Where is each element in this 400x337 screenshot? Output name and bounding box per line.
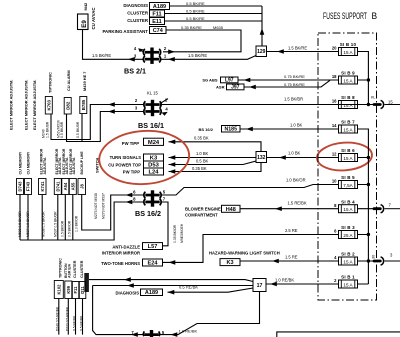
terminal KL 30	[374, 260, 380, 263]
wire staircase CU memory and mirror units to BS 16/2 pin 8	[20, 195, 73, 241]
svg-text:A189: A189	[145, 290, 158, 296]
svg-text:J97: J97	[231, 85, 240, 91]
red highlight ellipse left	[97, 128, 190, 187]
svg-text:0.5 BK/OR: 0.5 BK/OR	[67, 220, 71, 237]
connector stub block left	[84, 273, 89, 292]
connector D53 CU power top	[144, 161, 164, 168]
wire BS 16/2 pin 5 to fuse SI B5, 1.0 BK/OR	[161, 185, 339, 196]
wire fuse SI B7 to N185, 1.0 BK	[240, 128, 339, 130]
svg-text:0.5 RE/BK: 0.5 RE/BK	[179, 285, 198, 290]
svg-text:K99: K99	[66, 285, 71, 293]
svg-text:SI B 6: SI B 6	[341, 148, 355, 153]
pin 4 stub arrow	[162, 112, 168, 116]
svg-text:15 A: 15 A	[343, 128, 353, 133]
svg-text:M439 HE 7: M439 HE 7	[82, 72, 87, 91]
svg-text:6: 6	[133, 190, 136, 195]
svg-text:8: 8	[334, 203, 337, 208]
wire fuse SI B6 to node 132, 1.0 BK	[266, 157, 339, 159]
svg-text:15: 15	[388, 99, 393, 104]
connector H48 blower engine compartment	[222, 205, 241, 212]
svg-text:1.5 BK/BR: 1.5 BK/BR	[45, 121, 49, 138]
connector A55 mirror adjust	[69, 179, 76, 195]
svg-text:12: 12	[332, 152, 337, 157]
svg-text:30: 30	[372, 255, 376, 259]
svg-text:15 A: 15 A	[343, 207, 353, 212]
svg-text:DIAGNOSIS: DIAGNOSIS	[116, 291, 140, 296]
svg-text:0.35 BK/OR: 0.35 BK/OR	[173, 224, 177, 243]
wire fuse bus KL15 side	[358, 52, 378, 105]
wire node 132 to M24, 0.35 BK	[169, 142, 262, 152]
connector D82 CU alarm	[64, 98, 71, 115]
svg-text:ELECT MIRROR ADJUSTM.: ELECT MIRROR ADJUSTM.	[24, 80, 29, 130]
svg-text:E24: E24	[148, 261, 159, 267]
svg-text:BS 16/1: BS 16/1	[138, 121, 164, 130]
svg-text:0.75 BK/RE: 0.75 BK/RE	[284, 74, 305, 79]
svg-text:M273 NOT M538: M273 NOT M538	[94, 193, 98, 219]
svg-text:CU ALARM: CU ALARM	[66, 70, 71, 91]
svg-text:4: 4	[165, 107, 168, 112]
connector D743 CU memory	[17, 179, 24, 195]
svg-text:7: 7	[163, 197, 166, 202]
svg-text:ANTI-DAZZLE: ANTI-DAZZLE	[112, 244, 140, 249]
connector D11 cluster	[79, 282, 86, 299]
svg-text:ELECT MIRROR ADJUSTM.: ELECT MIRROR ADJUSTM.	[9, 80, 14, 130]
svg-text:0.5 BK/OR: 0.5 BK/OR	[60, 220, 64, 237]
wire lower bus to node 17	[93, 285, 253, 287]
connector bottom BS half symbol	[143, 330, 159, 337]
svg-text:M635: M635	[213, 25, 224, 30]
wire A189 0.5 BK/RE	[170, 5, 263, 7]
wire C74 0.35 BK/RE loop to BS 2/1 pin 2	[163, 30, 241, 52]
svg-text:4: 4	[134, 46, 137, 51]
svg-text:0.35 BK: 0.35 BK	[192, 166, 207, 171]
svg-text:2.5 RE: 2.5 RE	[285, 228, 298, 233]
wire J97 0.75 BK/RE merging	[244, 80, 330, 87]
svg-text:16: 16	[332, 99, 337, 104]
pin 4 stub	[140, 50, 144, 53]
svg-text:TIPTRONIC: TIPTRONIC	[48, 72, 53, 93]
svg-text:SI B 1: SI B 1	[341, 275, 355, 280]
node 17	[253, 279, 266, 292]
svg-text:4: 4	[334, 255, 337, 260]
wire J8 to BS 16/2 pin 6, 1.0 BK/OR	[82, 195, 144, 231]
connector D741 mirror adjust	[54, 179, 61, 195]
wire F11 0.5 BK/RE	[165, 13, 263, 15]
svg-text:KL 15: KL 15	[147, 91, 158, 96]
svg-text:ADJUSTM.: ADJUSTM.	[72, 157, 76, 174]
wire fuse SI B4 to H48, 1.5 RE/BK	[240, 208, 339, 210]
svg-text:0.5 BK/RE: 0.5 BK/RE	[186, 8, 205, 13]
connector F11 cluster	[150, 10, 165, 17]
svg-text:1.5 BK/RE: 1.5 BK/RE	[288, 45, 307, 50]
svg-text:2: 2	[164, 46, 167, 51]
svg-text:SI B 4: SI B 4	[341, 199, 355, 204]
svg-text:2: 2	[334, 278, 337, 283]
node 129	[256, 46, 267, 57]
svg-text:132: 132	[257, 155, 266, 161]
connector BS 16/1	[144, 100, 161, 116]
wire branch B785	[81, 114, 83, 142]
svg-text:CLUSTER: CLUSTER	[73, 260, 77, 278]
svg-text:L57: L57	[148, 244, 158, 250]
svg-text:BS 16/2: BS 16/2	[135, 209, 161, 218]
svg-text:1.0 BK/OR: 1.0 BK/OR	[74, 215, 78, 232]
svg-text:K703: K703	[46, 99, 51, 110]
svg-text:M42: M42	[83, 2, 88, 11]
svg-text:PW TIPP: PW TIPP	[122, 141, 139, 146]
svg-text:CU MEMORY: CU MEMORY	[18, 151, 22, 174]
svg-text:1.5 BK/BR: 1.5 BK/BR	[284, 97, 303, 102]
svg-text:1.0 BK: 1.0 BK	[196, 151, 209, 156]
svg-text:D11: D11	[80, 286, 85, 294]
svg-text:TURN SIGNALS: TURN SIGNALS	[110, 155, 142, 160]
svg-text:B: B	[372, 11, 378, 21]
connector BS 16/2	[144, 190, 161, 206]
connector J97 ASR	[227, 84, 245, 90]
wire E11 0.5 BK/RE	[165, 20, 263, 22]
fuse support border dash-dot	[318, 33, 377, 300]
svg-text:HAZARD-WARNING LIGHT SWITCH: HAZARD-WARNING LIGHT SWITCH	[209, 251, 280, 256]
connector B785	[80, 97, 87, 114]
connector L11 cluster	[72, 282, 79, 299]
wire node 132 to D53, 0.5 BK	[169, 161, 257, 165]
svg-text:A189: A189	[153, 4, 166, 10]
wire fuse SI B2 to K3, 1.5 RE	[240, 260, 339, 262]
connector F743 CU memory	[25, 179, 32, 195]
connector J8 switch	[78, 179, 86, 195]
svg-text:SG ABS: SG ABS	[202, 78, 218, 83]
wire bus down to node 129	[261, 6, 263, 46]
svg-text:25 A: 25 A	[343, 233, 353, 238]
svg-text:CLUSTER: CLUSTER	[127, 11, 149, 16]
svg-text:0.75 BK/RE: 0.75 BK/RE	[284, 82, 305, 87]
svg-text:PARKING ASSISTANT: PARKING ASSISTANT	[102, 29, 148, 34]
connector E24 two-tone horns	[143, 259, 163, 266]
connector L24 PW TIPP	[144, 168, 164, 175]
wire fuse SI B9 to L97, 0.75 BK/RE	[238, 79, 339, 81]
wire fuse SI B1 to node 17, 1.0 RE/BK	[266, 283, 339, 285]
svg-text:N185: N185	[225, 127, 238, 133]
svg-text:18: 18	[332, 74, 337, 79]
svg-text:A54: A54	[63, 182, 68, 190]
connector E9 (CU HVAC)	[78, 14, 89, 30]
svg-text:K102: K102	[56, 284, 61, 295]
svg-text:1.0 BK: 1.0 BK	[290, 123, 303, 128]
svg-text:M9E3/M0EH: M9E3/M0EH	[180, 223, 184, 243]
svg-text:ELECT MIRROR ADJUSTM.: ELECT MIRROR ADJUSTM.	[32, 80, 37, 130]
svg-text:15 A: 15 A	[343, 283, 353, 288]
svg-text:TWO-TONE HORNS: TWO-TONE HORNS	[101, 261, 140, 266]
connector BS 2/1	[143, 48, 160, 64]
svg-text:1.0 BK/OR: 1.0 BK/OR	[286, 178, 306, 183]
svg-text:D82: D82	[65, 101, 70, 110]
svg-text:129: 129	[257, 49, 266, 55]
wire node 17 down to bottom connector pin 5	[159, 292, 260, 335]
svg-text:0.5 BK: 0.5 BK	[196, 158, 209, 163]
svg-text:ADJUSTM.: ADJUSTM.	[43, 157, 47, 174]
connector C74 parking assistant	[150, 27, 167, 34]
terminal 7	[374, 207, 380, 210]
connector K102 tiptronic	[54, 281, 63, 299]
wire BS 16/1 pin 2 to mirror/tiptronic units	[51, 105, 144, 140]
svg-text:CU MEMORY: CU MEMORY	[26, 151, 30, 174]
svg-text:BACKUP LIHE: BACKUP LIHE	[80, 151, 84, 175]
svg-text:8: 8	[133, 197, 136, 202]
wire fuse SI B8 to BS 16/1 pin 1, 1.5 BK/BR	[160, 99, 377, 105]
svg-text:6: 6	[334, 229, 337, 234]
svg-text:KL: KL	[371, 95, 375, 99]
svg-text:1.5 RE: 1.5 RE	[285, 255, 298, 260]
wire 129 to BS 2/1 pin 1, 1.5 BK/RE	[161, 56, 256, 60]
svg-text:F11: F11	[152, 11, 161, 17]
svg-text:3: 3	[135, 106, 138, 111]
svg-text:1.0 BK: 1.0 BK	[288, 151, 301, 156]
svg-text:7,5A: 7,5A	[343, 183, 353, 188]
svg-text:K741: K741	[40, 181, 45, 192]
svg-text:15 A: 15 A	[343, 103, 353, 108]
svg-text:3: 3	[390, 253, 393, 258]
wire left leg to bottom connector pin 7	[93, 286, 144, 335]
svg-text:B785: B785	[81, 99, 86, 110]
svg-text:0.35 BK/RE: 0.35 BK/RE	[181, 25, 202, 30]
svg-text:0.5 BK/RE: 0.5 BK/RE	[186, 1, 205, 6]
svg-text:1.0 RE/BK: 1.0 RE/BK	[275, 277, 294, 282]
svg-text:3: 3	[134, 54, 137, 59]
svg-text:SI B 2: SI B 2	[341, 252, 355, 257]
svg-text:DIAGNOSIS: DIAGNOSIS	[123, 3, 148, 8]
svg-text:M273 NOT M537: M273 NOT M537	[101, 193, 105, 219]
svg-text:M537 0.5 BK/OR: M537 0.5 BK/OR	[53, 211, 57, 237]
svg-text:CLUSTER: CLUSTER	[127, 18, 149, 23]
svg-text:K3: K3	[226, 260, 233, 266]
svg-text:1.0 RE/BK: 1.0 RE/BK	[179, 329, 198, 334]
svg-text:A55: A55	[70, 182, 75, 190]
wire node 132 to L24, 0.35 BK	[169, 163, 262, 172]
svg-text:2: 2	[135, 98, 138, 103]
svg-text:L97: L97	[225, 78, 234, 84]
svg-text:D743: D743	[18, 181, 23, 192]
svg-text:15 A: 15 A	[343, 79, 353, 84]
svg-text:E11: E11	[152, 19, 161, 25]
svg-text:0.5 BK/BR: 0.5 BK/BR	[76, 121, 80, 138]
wire BS 16/1 pin 3 to alarm units	[67, 112, 145, 142]
svg-text:F743: F743	[26, 181, 31, 191]
connector K99	[65, 281, 72, 299]
wire fuse SI B4 to terminal 7	[358, 208, 378, 210]
wire BS 16/2 pin 7 to L57, 0.35 BK/OR	[161, 202, 168, 246]
svg-text:17: 17	[257, 283, 263, 289]
connector K741 mirror adjust	[39, 179, 47, 195]
wire A189 to node 17, 0.5 RE/BK	[168, 288, 254, 292]
svg-text:SI B 9: SI B 9	[341, 71, 355, 76]
svg-text:SI B 7: SI B 7	[341, 120, 355, 125]
wire E9 to BS 2/1 pin 3, 1.5 BK/RE	[83, 30, 144, 60]
svg-text:15 A: 15 A	[343, 50, 353, 55]
svg-text:SI B 5: SI B 5	[341, 175, 355, 180]
svg-text:10: 10	[332, 179, 337, 184]
unit box bottom right	[277, 332, 400, 337]
svg-text:F11: F11	[73, 286, 78, 294]
wire node 132 to K3, 1.0 BK	[169, 157, 257, 159]
svg-text:1.5 BK/RE: 1.5 BK/RE	[92, 53, 111, 58]
wires group 3 down to bottom edge	[59, 299, 83, 335]
wire fuse bus KL30 side	[358, 129, 378, 284]
svg-text:0.5 BK/RE: 0.5 BK/RE	[186, 16, 205, 21]
svg-text:PW TIPP: PW TIPP	[123, 170, 140, 175]
svg-text:E9: E9	[81, 20, 88, 28]
terminal KL 15	[374, 103, 380, 106]
connector A189 diagnosis lower	[141, 289, 163, 296]
svg-text:TIPTRONIC: TIPTRONIC	[58, 258, 62, 278]
svg-text:1.5 BK/RE: 1.5 BK/RE	[188, 53, 207, 58]
svg-text:L24: L24	[149, 170, 160, 176]
connector K703 tiptronic	[45, 97, 52, 115]
connector L57 anti-dazzle mirror	[143, 243, 163, 250]
svg-text:BS 16/2: BS 16/2	[199, 127, 214, 132]
svg-text:ASR: ASR	[216, 84, 225, 89]
svg-text:INTERIOR MIRROR: INTERIOR MIRROR	[102, 250, 140, 255]
svg-text:1.5 RE/BK: 1.5 RE/BK	[288, 200, 307, 205]
connector A54 mirror adjust	[62, 179, 69, 195]
svg-text:14: 14	[332, 123, 337, 128]
wire 129 to fuse SI B10, 1.5 BK/RE	[267, 51, 339, 53]
svg-text:CU POWER TOP: CU POWER TOP	[108, 162, 141, 167]
svg-text:CU AVVAC: CU AVVAC	[91, 7, 96, 30]
wire upper bus to node 17	[89, 280, 253, 282]
svg-text:SI B 10: SI B 10	[340, 42, 357, 47]
svg-text:1: 1	[164, 54, 167, 59]
svg-text:BLOWER ENGINE: BLOWER ENGINE	[185, 207, 221, 212]
svg-text:CLUSTER: CLUSTER	[80, 260, 84, 278]
svg-text:SI B 8: SI B 8	[341, 95, 355, 100]
red highlight ellipse right on fuse SI B6	[316, 141, 373, 172]
connector K3 turn signals	[144, 154, 164, 161]
svg-text:0.35 BK: 0.35 BK	[194, 136, 209, 141]
svg-text:M24: M24	[148, 140, 160, 146]
connector A189 diagnosis	[150, 3, 170, 10]
connector M24 PW TIPP	[144, 138, 164, 145]
svg-text:H48: H48	[226, 207, 236, 213]
connector K3 hazard warning switch	[220, 259, 240, 266]
svg-text:COMPARTMENT: COMPARTMENT	[185, 213, 218, 218]
svg-text:15 A: 15 A	[343, 156, 353, 161]
svg-text:FUSES SUPPORT: FUSES SUPPORT	[323, 11, 367, 21]
svg-text:5: 5	[163, 190, 166, 195]
svg-text:ASR E/A: ASR E/A	[67, 263, 71, 278]
svg-text:0.5 BK/BR: 0.5 BK/BR	[60, 121, 64, 138]
wire fuse SI B3 to E24, 2.5 RE	[163, 235, 339, 263]
connector L97 SG ABS	[221, 77, 239, 83]
connector N185	[222, 126, 241, 133]
svg-text:15 A: 15 A	[343, 260, 353, 265]
svg-text:J8: J8	[79, 184, 84, 189]
svg-text:D741: D741	[55, 181, 60, 192]
svg-text:7: 7	[389, 202, 392, 207]
svg-text:SI B 3: SI B 3	[341, 225, 355, 230]
node 132	[256, 152, 267, 163]
svg-text:20: 20	[332, 46, 337, 51]
svg-text:C74: C74	[153, 28, 164, 34]
connector E11 cluster	[150, 18, 165, 25]
svg-text:BS 2/1: BS 2/1	[124, 67, 146, 76]
